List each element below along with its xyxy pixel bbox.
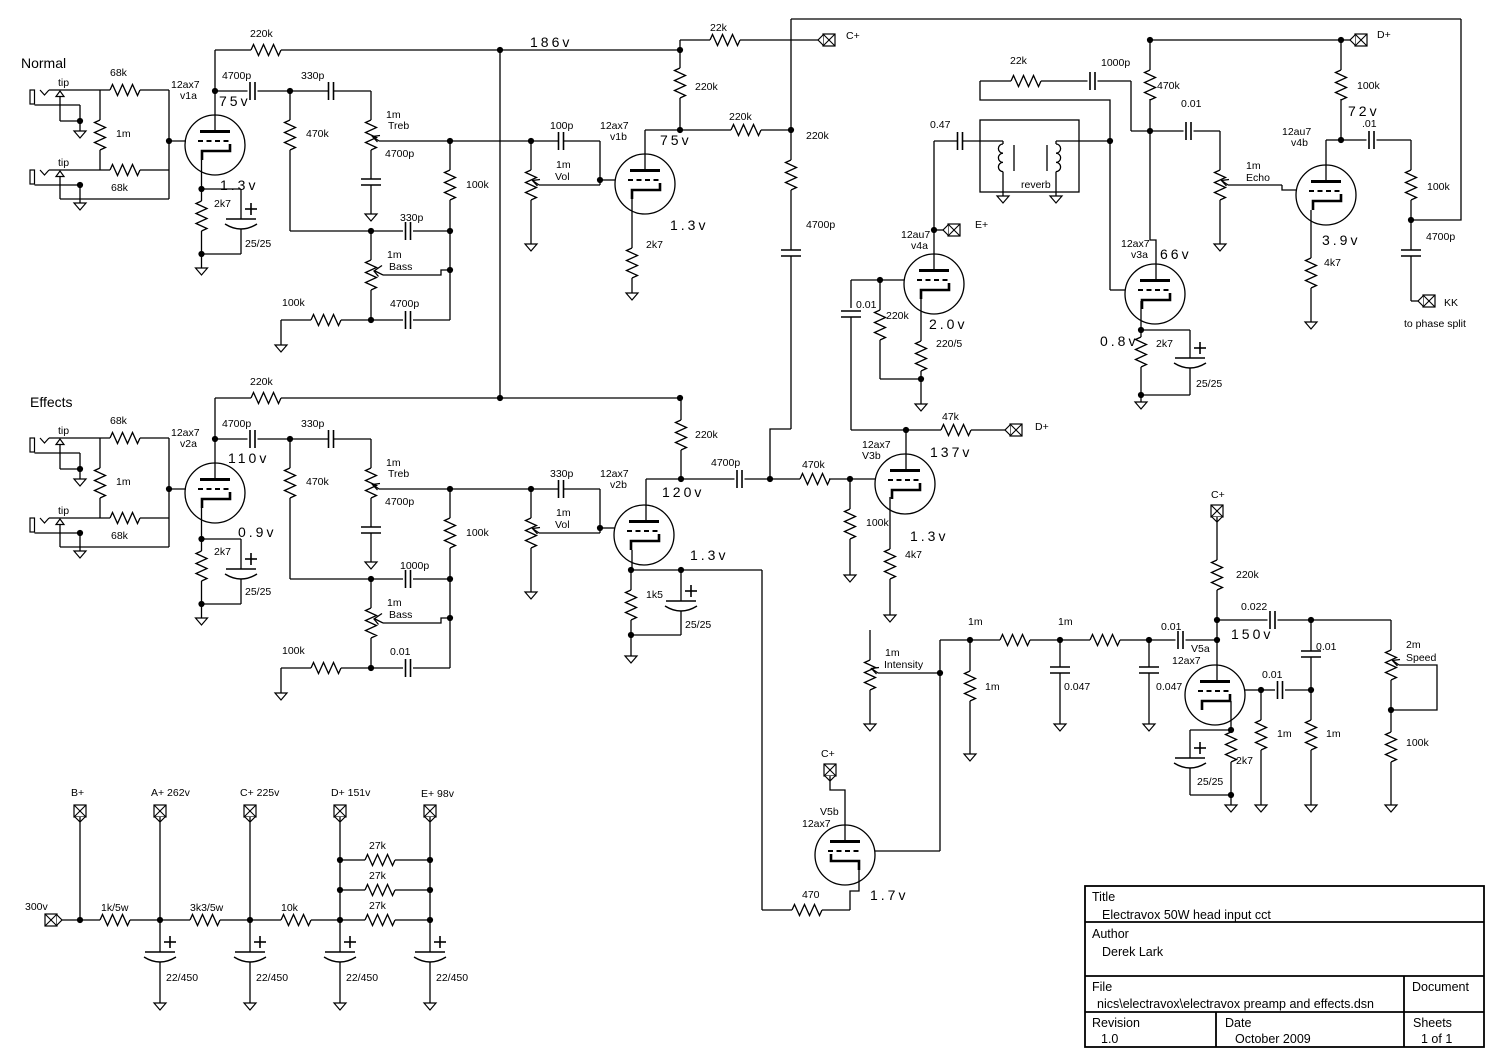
svg-text:22/450: 22/450 (166, 972, 198, 984)
svg-text:C+ 225v: C+ 225v (240, 787, 280, 799)
svg-text:150v: 150v (1231, 626, 1273, 642)
svg-text:470: 470 (802, 889, 820, 901)
svg-text:Electravox 50W head input cct: Electravox 50W head input cct (1102, 908, 1271, 922)
svg-text:220k: 220k (695, 429, 719, 441)
svg-text:1m: 1m (116, 476, 131, 488)
svg-text:C+: C+ (1211, 489, 1225, 501)
svg-text:E+: E+ (975, 219, 988, 231)
svg-text:to phase split: to phase split (1404, 318, 1466, 330)
svg-text:v2b: v2b (610, 479, 627, 491)
svg-text:V5b: V5b (820, 806, 839, 818)
svg-text:1000p: 1000p (400, 560, 429, 572)
svg-text:2k7: 2k7 (646, 239, 663, 251)
svg-text:470k: 470k (306, 128, 330, 140)
svg-text:1m: 1m (985, 681, 1000, 693)
svg-text:25/25: 25/25 (245, 586, 271, 598)
svg-text:1.3v: 1.3v (690, 547, 728, 563)
svg-text:October 2009: October 2009 (1235, 1032, 1311, 1046)
svg-text:25/25: 25/25 (685, 619, 711, 631)
svg-text:2.0v: 2.0v (929, 316, 967, 332)
svg-text:68k: 68k (111, 182, 129, 194)
svg-text:2m: 2m (1406, 639, 1421, 651)
svg-text:Derek Lark: Derek Lark (1102, 945, 1164, 959)
svg-text:1m: 1m (556, 507, 571, 519)
svg-text:100k: 100k (1357, 80, 1381, 92)
svg-text:0.01: 0.01 (1316, 641, 1337, 653)
svg-text:Speed: Speed (1406, 652, 1437, 664)
svg-text:Author: Author (1092, 927, 1129, 941)
svg-text:Sheets: Sheets (1413, 1016, 1452, 1030)
svg-text:66v: 66v (1160, 246, 1192, 262)
svg-text:2k7: 2k7 (214, 546, 231, 558)
svg-text:nics\electravox\electravox pre: nics\electravox\electravox preamp and ef… (1097, 997, 1374, 1011)
svg-text:4700p: 4700p (390, 298, 419, 310)
svg-text:D+: D+ (1035, 421, 1049, 433)
svg-text:470k: 470k (1157, 80, 1181, 92)
svg-text:Bass: Bass (389, 261, 412, 273)
svg-text:220k: 220k (886, 310, 910, 322)
svg-text:Title: Title (1092, 890, 1115, 904)
svg-text:186v: 186v (530, 34, 572, 50)
svg-text:0.01: 0.01 (1161, 621, 1182, 633)
svg-text:Echo: Echo (1246, 172, 1270, 184)
svg-text:0.01: 0.01 (1262, 669, 1283, 681)
svg-text:4700p: 4700p (222, 418, 251, 430)
svg-text:1m: 1m (116, 128, 131, 140)
svg-text:1m: 1m (1058, 616, 1073, 628)
svg-text:Date: Date (1225, 1016, 1251, 1030)
svg-text:A+ 262v: A+ 262v (151, 787, 191, 799)
svg-text:v1b: v1b (610, 131, 627, 143)
svg-text:1m: 1m (968, 616, 983, 628)
svg-text:Treb: Treb (388, 468, 409, 480)
svg-text:reverb: reverb (1021, 179, 1051, 191)
svg-text:D+: D+ (1377, 29, 1391, 41)
svg-text:Vol: Vol (555, 519, 570, 531)
svg-text:47k: 47k (942, 411, 960, 423)
svg-text:10k: 10k (281, 902, 299, 914)
svg-text:330p: 330p (400, 212, 424, 224)
svg-text:220k: 220k (250, 376, 274, 388)
svg-text:0.9v: 0.9v (238, 524, 276, 540)
svg-text:12ax7: 12ax7 (1172, 655, 1201, 667)
svg-text:0.047: 0.047 (1156, 681, 1182, 693)
svg-text:2k7: 2k7 (1236, 755, 1253, 767)
svg-text:Document: Document (1412, 980, 1469, 994)
svg-text:330p: 330p (301, 70, 325, 82)
svg-text:4700p: 4700p (385, 496, 414, 508)
svg-text:68k: 68k (110, 415, 128, 427)
svg-text:1m: 1m (387, 249, 402, 261)
svg-text:1m: 1m (1246, 160, 1261, 172)
svg-text:68k: 68k (111, 530, 129, 542)
svg-text:300v: 300v (25, 901, 49, 913)
svg-text:v4a: v4a (911, 240, 928, 252)
svg-text:v1a: v1a (180, 90, 197, 102)
svg-text:1m: 1m (885, 647, 900, 659)
svg-text:100k: 100k (866, 517, 890, 529)
svg-text:120v: 120v (662, 484, 704, 500)
svg-text:4k7: 4k7 (905, 549, 922, 561)
svg-text:Vol: Vol (555, 171, 570, 183)
svg-text:V3b: V3b (862, 450, 881, 462)
svg-text:v4b: v4b (1291, 137, 1308, 149)
svg-text:110v: 110v (228, 450, 269, 466)
svg-text:100k: 100k (282, 645, 306, 657)
svg-text:3.9v: 3.9v (1322, 232, 1360, 248)
svg-text:tip: tip (58, 425, 69, 437)
svg-text:4700p: 4700p (806, 219, 835, 231)
svg-text:22/450: 22/450 (436, 972, 468, 984)
svg-text:1k5: 1k5 (646, 589, 663, 601)
svg-text:330p: 330p (550, 468, 574, 480)
svg-text:0.01: 0.01 (390, 646, 411, 658)
svg-text:Bass: Bass (389, 609, 412, 621)
svg-text:100k: 100k (1427, 181, 1451, 193)
svg-text:220k: 220k (729, 111, 753, 123)
svg-text:1m: 1m (556, 159, 571, 171)
svg-text:100k: 100k (1406, 737, 1430, 749)
svg-text:27k: 27k (369, 900, 387, 912)
svg-text:v3a: v3a (1131, 249, 1148, 261)
svg-text:1m: 1m (1277, 728, 1292, 740)
svg-text:0.8v: 0.8v (1100, 333, 1138, 349)
svg-text:3k3/5w: 3k3/5w (190, 902, 224, 914)
svg-text:470k: 470k (802, 459, 826, 471)
svg-text:Revision: Revision (1092, 1016, 1140, 1030)
svg-text:220k: 220k (695, 81, 719, 93)
svg-text:Normal: Normal (21, 55, 66, 71)
svg-text:137v: 137v (930, 444, 972, 460)
svg-text:1000p: 1000p (1101, 57, 1130, 69)
svg-text:0.047: 0.047 (1064, 681, 1090, 693)
svg-text:1 of 1: 1 of 1 (1421, 1032, 1452, 1046)
svg-text:470k: 470k (306, 476, 330, 488)
svg-text:4700p: 4700p (385, 148, 414, 160)
svg-text:1.3v: 1.3v (910, 528, 948, 544)
svg-text:2k7: 2k7 (214, 198, 231, 210)
svg-text:1.0: 1.0 (1101, 1032, 1118, 1046)
svg-text:4700p: 4700p (711, 457, 740, 469)
svg-text:72v: 72v (1348, 103, 1380, 119)
svg-text:25/25: 25/25 (1196, 378, 1222, 390)
svg-text:330p: 330p (301, 418, 325, 430)
svg-text:tip: tip (58, 157, 69, 169)
svg-text:0.01: 0.01 (1181, 98, 1202, 110)
svg-text:75v: 75v (219, 93, 251, 109)
svg-text:Effects: Effects (30, 394, 73, 410)
svg-text:25/25: 25/25 (1197, 776, 1223, 788)
svg-text:1.7v: 1.7v (870, 887, 908, 903)
svg-text:C+: C+ (821, 748, 835, 760)
svg-text:v2a: v2a (180, 438, 197, 450)
svg-text:75v: 75v (660, 132, 692, 148)
svg-text:68k: 68k (110, 67, 128, 79)
svg-text:100k: 100k (466, 179, 490, 191)
svg-text:E+ 98v: E+ 98v (421, 788, 455, 800)
svg-text:Intensity: Intensity (884, 659, 924, 671)
svg-text:220k: 220k (250, 28, 274, 40)
svg-text:1m: 1m (1326, 728, 1341, 740)
svg-text:100k: 100k (466, 527, 490, 539)
svg-text:100k: 100k (282, 297, 306, 309)
svg-text:27k: 27k (369, 840, 387, 852)
svg-text:22/450: 22/450 (346, 972, 378, 984)
svg-text:220/5: 220/5 (936, 338, 962, 350)
svg-text:1.3v: 1.3v (220, 177, 258, 193)
svg-text:12ax7: 12ax7 (802, 818, 831, 830)
svg-text:4700p: 4700p (1426, 231, 1455, 243)
svg-text:KK: KK (1444, 297, 1458, 309)
svg-text:220k: 220k (806, 130, 830, 142)
svg-text:D+ 151v: D+ 151v (331, 787, 371, 799)
svg-text:2k7: 2k7 (1156, 338, 1173, 350)
svg-text:100p: 100p (550, 120, 574, 132)
svg-text:tip: tip (58, 77, 69, 89)
svg-text:1k/5w: 1k/5w (101, 902, 129, 914)
svg-text:1.3v: 1.3v (670, 217, 708, 233)
svg-text:tip: tip (58, 505, 69, 517)
svg-text:0.01: 0.01 (856, 299, 877, 311)
svg-text:1m: 1m (387, 597, 402, 609)
svg-text:22k: 22k (1010, 55, 1028, 67)
svg-text:0.47: 0.47 (930, 119, 951, 131)
svg-text:V5a: V5a (1191, 643, 1210, 655)
svg-text:Treb: Treb (388, 120, 409, 132)
svg-text:27k: 27k (369, 870, 387, 882)
svg-text:22k: 22k (710, 22, 728, 34)
svg-text:220k: 220k (1236, 569, 1260, 581)
svg-text:25/25: 25/25 (245, 238, 271, 250)
svg-text:0.022: 0.022 (1241, 601, 1267, 613)
svg-text:22/450: 22/450 (256, 972, 288, 984)
svg-text:C+: C+ (846, 30, 860, 42)
svg-text:4k7: 4k7 (1324, 257, 1341, 269)
svg-text:File: File (1092, 980, 1112, 994)
svg-text:B+: B+ (71, 787, 84, 799)
svg-text:4700p: 4700p (222, 70, 251, 82)
svg-text:.01: .01 (1362, 118, 1377, 130)
